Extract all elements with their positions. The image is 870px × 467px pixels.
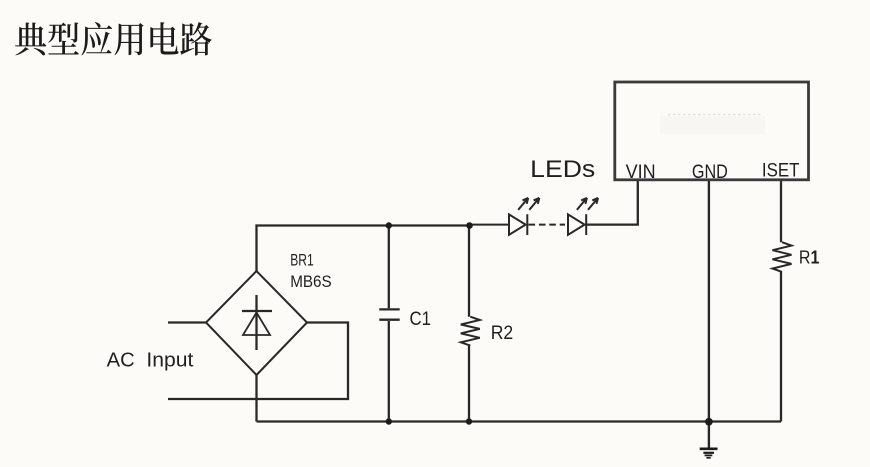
svg-text:MB6S: MB6S [290, 272, 332, 291]
svg-text:R2: R2 [491, 323, 514, 344]
svg-text:AC: AC [107, 350, 135, 372]
svg-text:GND: GND [692, 162, 728, 183]
svg-text:Input: Input [146, 350, 193, 372]
svg-text:R1: R1 [799, 247, 820, 267]
svg-text:BR1: BR1 [290, 251, 314, 270]
svg-text:VIN: VIN [626, 162, 656, 183]
svg-text:C1: C1 [410, 308, 432, 330]
svg-text:ISET: ISET [762, 159, 800, 181]
svg-text:LEDs: LEDs [530, 156, 595, 183]
